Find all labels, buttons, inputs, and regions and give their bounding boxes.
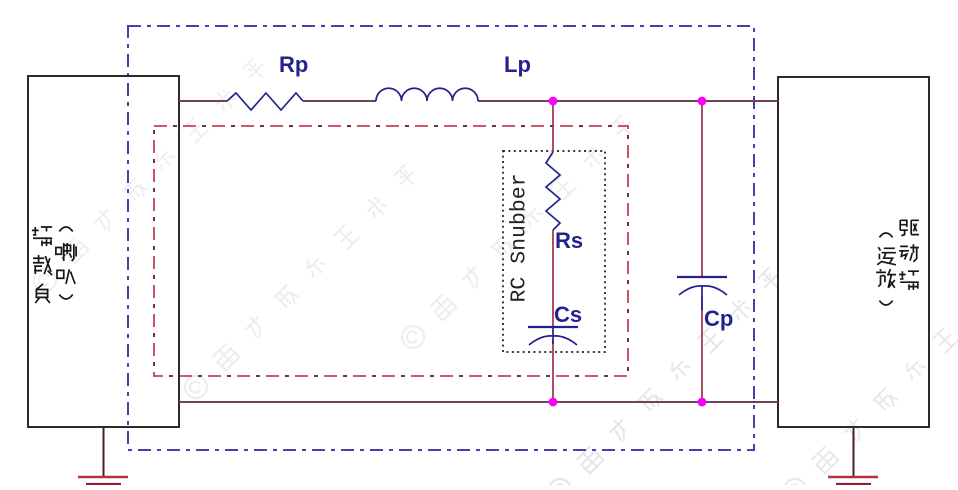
svg-text:Lp: Lp bbox=[504, 52, 531, 77]
svg-text:Rs: Rs bbox=[555, 228, 583, 253]
svg-text:Rp: Rp bbox=[279, 52, 308, 77]
svg-text:RC Snubber: RC Snubber bbox=[508, 173, 532, 302]
svg-text:Cs: Cs bbox=[554, 302, 582, 327]
svg-text:Cp: Cp bbox=[704, 306, 733, 331]
